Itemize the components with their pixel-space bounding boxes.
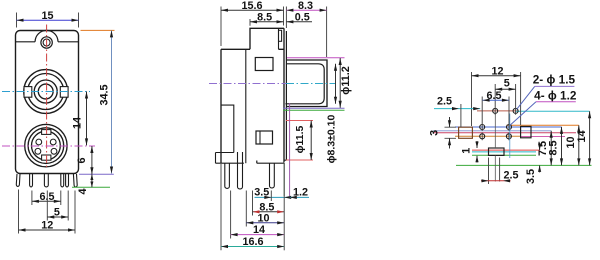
svg-text:1.2: 1.2	[293, 186, 308, 198]
RCA jack circle 3	[34, 80, 57, 103]
svg-text:0.5: 0.5	[295, 11, 310, 23]
dim 5 line	[47, 216, 68, 218]
body top edge	[221, 48, 284, 50]
screw hole inner	[43, 39, 50, 46]
dim 15 extension lines	[17, 13, 79, 28]
RCA jack circle 4	[38, 84, 53, 99]
dim 10 line	[578, 125, 580, 165]
mini-DIN pin hole 1	[36, 139, 42, 145]
svg-text:4- ϕ 1.2: 4- ϕ 1.2	[534, 88, 577, 102]
flange front line	[284, 31, 286, 160]
long green bottom line	[456, 164, 592, 166]
dim 10 line	[246, 222, 284, 224]
ext magenta vertical	[289, 103, 291, 196]
partition	[245, 49, 247, 163]
svg-text:15.6: 15.6	[241, 0, 262, 12]
screw hole outer	[41, 37, 52, 48]
mini-DIN pin hole 2	[50, 139, 56, 145]
svg-text:5: 5	[54, 207, 60, 219]
dim 8.5 line	[561, 127, 563, 165]
dim 5 ext lines	[495, 84, 515, 115]
connector body outline	[16, 31, 79, 174]
dim 3.5 line	[539, 143, 541, 172]
mini-DIN circle mid	[28, 128, 64, 164]
bottom slot	[489, 148, 505, 155]
dim 5 line	[495, 88, 515, 90]
svg-text:2.5: 2.5	[503, 169, 518, 181]
green line slot bottom	[472, 154, 536, 156]
dim 8.5 ext	[252, 191, 254, 216]
mini-DIN pin hole 3	[35, 148, 41, 154]
dim 12 line	[472, 75, 521, 77]
dim 1 line	[476, 141, 478, 163]
left slot	[459, 127, 473, 138]
svg-text:12: 12	[491, 65, 503, 77]
svg-text:8.3: 8.3	[298, 0, 313, 12]
svg-text:ϕ11.5: ϕ11.5	[294, 125, 306, 153]
pin hole F	[506, 134, 511, 139]
svg-text:5: 5	[504, 77, 510, 89]
small square hole	[256, 131, 273, 144]
dim 0.5 line	[286, 21, 312, 23]
pin hole E	[480, 134, 485, 139]
dim 15.6 ext lines	[221, 7, 284, 47]
body bottom ext line	[79, 173, 114, 175]
dim 6.5 ext lines	[32, 191, 61, 206]
ext line top right orange	[81, 29, 115, 31]
pin 1	[16, 174, 20, 187]
mid pin 1	[225, 163, 230, 188]
dim 2.5 bottom line	[481, 180, 511, 182]
green line row A	[477, 110, 518, 112]
right slot	[521, 126, 531, 137]
pin hole C	[480, 125, 485, 130]
blue line 7.5 ref	[433, 130, 551, 132]
barrel centerline	[209, 83, 286, 85]
dim 8.3 ext lines	[286, 7, 326, 58]
svg-text:3.5: 3.5	[254, 186, 269, 198]
vertical ext hole A down	[494, 114, 496, 182]
vertical centerline	[46, 25, 48, 169]
mini-DIN bottom key	[42, 155, 51, 160]
svg-text:14: 14	[72, 117, 84, 129]
pin 6	[73, 174, 77, 187]
dim phi11.2 ext bottom	[283, 109, 345, 111]
ext green vertical	[283, 163, 285, 196]
svg-text:12: 12	[41, 220, 53, 232]
svg-text:4: 4	[77, 188, 89, 194]
svg-text:8.5: 8.5	[548, 140, 560, 155]
dim 7.5 line	[550, 131, 552, 166]
dim 6.5 ext lines	[482, 97, 509, 131]
dim 1.2 tail	[290, 196, 309, 198]
dim 6 line	[91, 146, 93, 174]
front panel line	[283, 28, 285, 162]
dim phi11.2 ext magenta top	[287, 57, 345, 59]
dim 12 line	[19, 229, 76, 231]
pin 3	[44, 174, 48, 187]
top protrusion	[250, 28, 284, 49]
svg-text:2.5: 2.5	[437, 95, 452, 107]
dim 8.5 line	[253, 211, 285, 213]
svg-text:2- ϕ 1.5: 2- ϕ 1.5	[533, 73, 576, 87]
svg-text:3.5: 3.5	[525, 169, 537, 184]
mini-DIN pin hole 4	[51, 148, 57, 154]
hole cross ticks	[482, 132, 509, 140]
green line row C	[455, 126, 562, 128]
DIN horizontal centerline	[2, 145, 95, 147]
dim 10 ext	[245, 191, 247, 227]
magenta line slots	[434, 132, 576, 134]
dim 15 line	[17, 19, 79, 21]
flange line with boss arc	[16, 41, 79, 43]
pin 4	[61, 174, 64, 187]
pin 2	[30, 174, 33, 187]
small hole inner line	[259, 131, 261, 144]
dim 4 line	[91, 174, 93, 187]
dim 14 line	[86, 92, 88, 146]
dim 3 line	[449, 117, 451, 149]
dim 34.5 line	[111, 30, 113, 173]
dim phi8.3 line	[335, 64, 337, 104]
dim 3 ext lines	[445, 127, 457, 138]
svg-text:1: 1	[460, 148, 472, 154]
dim 2.5 top line cyan	[434, 108, 480, 110]
mini-DIN top notch	[42, 130, 51, 135]
dim 3.5 ext	[270, 191, 272, 202]
RCA jack notch right	[60, 87, 68, 98]
dim 15.6 line	[221, 9, 284, 11]
dim 16.6 ext	[220, 164, 222, 250]
dim 14 ext	[230, 191, 232, 239]
svg-text:34.5: 34.5	[99, 84, 111, 105]
vertical ext blue hole D down	[509, 114, 511, 159]
svg-text:8.5: 8.5	[257, 11, 272, 23]
protrusion notch	[279, 30, 282, 41]
svg-text:14: 14	[253, 224, 265, 236]
RCA horizontal centerline	[2, 91, 90, 93]
dim phi11.5 line	[310, 121, 312, 161]
protrusion right edge	[278, 28, 280, 49]
svg-text:ϕ11.2: ϕ11.2	[340, 66, 352, 95]
svg-text:6: 6	[76, 157, 88, 163]
dim 6.5 line	[32, 200, 61, 202]
mid pin 3	[270, 163, 275, 188]
svg-text:6.5: 6.5	[486, 90, 501, 102]
dim 6.5 line	[483, 99, 509, 101]
dim 5 ext lines	[47, 191, 68, 221]
leader to hole B	[517, 86, 535, 109]
orange line row top of D	[507, 124, 579, 126]
RCA barrel inner rounded	[285, 64, 324, 104]
svg-text:3: 3	[428, 130, 440, 136]
pin 5	[66, 174, 69, 187]
RCA jack notch left	[24, 87, 32, 98]
upper inner hole	[255, 58, 273, 71]
RCA barrel outer	[286, 60, 327, 107]
dim 8.5 ext line	[249, 19, 251, 26]
dim 3.5 line teal	[255, 196, 294, 198]
mini-DIN circle outer	[25, 124, 67, 166]
dim 16.6 line teal	[221, 246, 284, 248]
dim 14 line	[589, 111, 591, 165]
cyan line slot mid	[472, 151, 536, 153]
label 4-phi1.2 underline	[536, 101, 576, 103]
mini-DIN circle inner	[32, 131, 61, 160]
dim 2.5 bottom ext lines	[489, 158, 500, 185]
svg-text:16.6: 16.6	[242, 236, 263, 248]
mid pin 2	[238, 152, 243, 189]
ext front face down	[283, 163, 285, 250]
leader to hole D	[510, 102, 536, 125]
svg-text:14: 14	[576, 130, 588, 142]
pin hole A	[493, 108, 498, 113]
RCA jack circle 2	[28, 74, 64, 110]
bottom edge left	[216, 161, 285, 164]
dim phi11.2 line	[339, 58, 341, 108]
dim 14 line magenta	[231, 234, 285, 236]
dim 2.5 ext	[460, 104, 462, 127]
pin hole D	[507, 125, 512, 130]
svg-text:10: 10	[257, 212, 269, 224]
pin hole B	[513, 108, 518, 113]
svg-text:15: 15	[41, 10, 53, 22]
dim 12 ext lines	[472, 72, 521, 126]
label 2-phi1.5 underline	[535, 85, 575, 87]
dim 12 ext lines	[19, 190, 76, 234]
red line slot top	[472, 149, 540, 151]
body back wall outer	[220, 49, 222, 163]
screw boss arc	[35, 30, 58, 41]
dim 8.3 line magenta	[286, 9, 326, 11]
pin bottom ext line green	[72, 186, 110, 188]
dim phi11.5 ext top	[286, 121, 313, 161]
bracket	[216, 105, 234, 163]
svg-text:ϕ8.3±0.10: ϕ8.3±0.10	[326, 115, 338, 164]
dim 8.5 line	[250, 21, 284, 23]
green line row E	[455, 135, 521, 137]
RCA jack circle 1	[24, 70, 68, 114]
